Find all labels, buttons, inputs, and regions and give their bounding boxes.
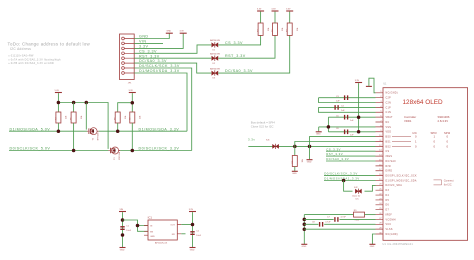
- wire D1/MOSI/SDA_3.3V from connector down to shifter: [134, 69, 187, 131]
- svg-text:D0/SCLK/SCK_5.0V: D0/SCLK/SCK_5.0V: [10, 147, 51, 151]
- svg-text:BAT54GW: BAT54GW: [210, 39, 220, 42]
- junction VLSS: [303, 227, 307, 231]
- junction IN-EN: [136, 224, 140, 228]
- supply 3.3V OLED rail: [355, 80, 362, 83]
- transistor T2: [109, 147, 122, 160]
- svg-text:GND: GND: [307, 162, 312, 164]
- svg-text:GND: GND: [150, 236, 155, 238]
- ground bottom rail: [301, 244, 307, 248]
- svg-text:GND: GND: [302, 246, 307, 248]
- solder jumper SJ1: [266, 140, 279, 149]
- wire BS0 row pin10: [310, 137, 376, 147]
- junction BS1 riser: [293, 145, 297, 149]
- wire VCOMH row pin27: [304, 218, 375, 220]
- svg-text:» 011110+SA0+RW: » 011110+SA0+RW: [8, 55, 34, 58]
- svg-text:CS: CS: [386, 151, 390, 153]
- svg-text:GND: GND: [167, 30, 172, 32]
- capacitor C2: [190, 231, 201, 237]
- supply 3.3V above R2: [271, 8, 278, 23]
- svg-text:Close for: Close for: [352, 194, 361, 197]
- ground below VSS row: [316, 127, 322, 136]
- wire VCC row pin28: [304, 223, 375, 225]
- capacitor C5: [336, 115, 354, 122]
- wire VDD row pin9: [328, 131, 375, 133]
- wire DC/SA0_3.3V stub to pin15: [326, 157, 376, 161]
- note text bus default: [251, 120, 275, 128]
- svg-text:10uF: 10uF: [196, 235, 201, 237]
- svg-text:5.0V: 5.0V: [55, 90, 60, 92]
- svg-text:VLSS: VLSS: [386, 229, 393, 231]
- svg-text:D7: D7: [386, 210, 390, 212]
- svg-text:VDD: VDD: [386, 132, 392, 134]
- wire CS_3.3V from connector: [134, 45, 211, 54]
- svg-text:for I2C: for I2C: [444, 182, 452, 186]
- svg-text:BS2: BS2: [386, 146, 392, 148]
- capacitor C4: [335, 105, 345, 112]
- svg-text:3.3V: 3.3V: [257, 8, 262, 10]
- svg-text:R/W: R/W: [386, 166, 392, 168]
- supply 3.3V right shifter: [129, 90, 136, 112]
- svg-text:BSS138: BSS138: [119, 151, 121, 159]
- junction VCOMH: [303, 218, 307, 222]
- diode D1: [210, 39, 220, 51]
- wire VSS row pin8: [319, 126, 376, 128]
- op OLED module U1 box: [383, 82, 468, 247]
- svg-text:VDD1: VDD1: [404, 119, 412, 123]
- resistor R1: [258, 23, 270, 35]
- junction OUT: [191, 223, 195, 227]
- supply symbol 3.3V top: [180, 30, 187, 33]
- svg-text:D2/I2C_SDA: D2/I2C_SDA: [386, 184, 403, 187]
- wire RST_3.3V to pullup R2: [218, 35, 275, 58]
- resistor R9 iref: [304, 210, 375, 221]
- wire CS_3.3V to pullup R1: [218, 35, 260, 45]
- svg-text:3.3v: 3.3v: [248, 137, 255, 141]
- svg-text:/RES: /RES: [386, 156, 393, 158]
- wire 3.3V net to supply: [134, 33, 183, 48]
- supply 3.3V regulator out: [189, 209, 196, 247]
- svg-text:RST_3.3V: RST_3.3V: [326, 152, 343, 156]
- wire pin1 NC(GND) hook: [369, 78, 376, 93]
- pin stubs U1: [376, 93, 384, 234]
- connector JP1: [120, 34, 135, 85]
- svg-text:VIN: VIN: [120, 209, 124, 211]
- junction BS0 riser: [308, 145, 312, 149]
- svg-text:3.3V: 3.3V: [355, 80, 360, 82]
- wire gate rail left: [58, 103, 108, 149]
- wire VIN net: [134, 40, 163, 44]
- svg-text:3.3V: 3.3V: [271, 8, 276, 10]
- junction SCL-R5: [72, 149, 76, 153]
- svg-text:DC/SA0: DC/SA0: [386, 160, 397, 163]
- svg-text:GND: GND: [292, 173, 297, 175]
- svg-text:D3: D3: [386, 190, 390, 192]
- capacitor C3: [336, 95, 348, 102]
- wire 3.3V rail down: [358, 83, 360, 132]
- svg-text:D1/MOSI/SDA_3.3V: D1/MOSI/SDA_3.3V: [139, 69, 180, 73]
- wire rail right shifter: [118, 103, 133, 112]
- svg-text:NC(GND): NC(GND): [386, 234, 398, 236]
- svg-text:GND: GND: [120, 250, 125, 252]
- svg-text:128x64 OLED: 128x64 OLED: [403, 99, 444, 106]
- wire VIN to IN/EN: [123, 220, 149, 231]
- svg-text:D1/SPI_MOSI/I2C_SDA: D1/SPI_MOSI/I2C_SDA: [386, 179, 417, 182]
- wire BS1 row pin11: [295, 142, 376, 147]
- svg-text:DC/SA0_3.3V: DC/SA0_3.3V: [225, 69, 253, 73]
- ground symbol top: [166, 30, 173, 33]
- svg-text:D0/SCLK/SCK_3.3V: D0/SCLK/SCK_3.3V: [139, 64, 180, 68]
- svg-text:VCOMH: VCOMH: [386, 219, 396, 221]
- svg-text:RST_3.3V: RST_3.3V: [225, 54, 246, 58]
- svg-text:CS_3.3V: CS_3.3V: [139, 49, 157, 53]
- svg-text:NR: NR: [172, 234, 176, 236]
- wire D0 stub to pin18: [324, 172, 376, 176]
- ground below C2: [190, 248, 196, 252]
- BS table dashes: [392, 137, 411, 147]
- wire RST_3.3V from connector: [134, 54, 211, 58]
- pin numbers U1: [379, 91, 382, 234]
- svg-text:» 0x7A with DC/SA0_3.3V floati: » 0x7A with DC/SA0_3.3V floating/high: [8, 58, 61, 61]
- svg-text:C2N: C2N: [386, 102, 392, 104]
- svg-text:BAT54GW: BAT54GW: [210, 53, 220, 56]
- resistor R2: [272, 23, 284, 35]
- junction VCC: [303, 223, 307, 227]
- junction VDD-3.3V: [357, 130, 361, 134]
- svg-text:BAT54GW: BAT54GW: [210, 67, 220, 70]
- svg-text:CS_3.3V: CS_3.3V: [225, 41, 243, 45]
- BS table values: [415, 135, 449, 149]
- supply 3.3V above R1: [257, 8, 264, 23]
- svg-text:GND: GND: [190, 250, 195, 252]
- resistor R8 pulldown: [292, 146, 304, 171]
- ground below C1: [120, 248, 126, 252]
- svg-text:OUT: OUT: [170, 225, 175, 227]
- svg-text:IC1: IC1: [148, 216, 153, 220]
- svg-text:3.3V: 3.3V: [180, 30, 185, 32]
- svg-text:DC/SA0_3.3V: DC/SA0_3.3V: [139, 59, 167, 63]
- capacitor C7: [327, 217, 347, 222]
- svg-text:D1/MOSI/SDA_3.3V: D1/MOSI/SDA_3.3V: [139, 127, 180, 131]
- svg-text:E/RD: E/RD: [386, 171, 393, 173]
- svg-text:D5: D5: [386, 200, 390, 202]
- svg-text:D0/SCLK/SCK_3.3V: D0/SCLK/SCK_3.3V: [139, 147, 180, 151]
- svg-text:3.3V: 3.3V: [286, 8, 291, 10]
- junction VSS tie: [327, 125, 331, 128]
- note bracket connect for I2C: [434, 178, 454, 186]
- svg-text:VIN: VIN: [139, 40, 147, 44]
- svg-text:3.3V: 3.3V: [129, 90, 134, 92]
- junction C1 bottom: [121, 233, 125, 237]
- junction VIN-IN: [121, 218, 125, 222]
- svg-text:GND: GND: [139, 35, 149, 39]
- wire DC/SA0_3.3V to pullup R3: [218, 35, 290, 73]
- svg-text:EN: EN: [150, 231, 153, 233]
- diode D3: [210, 67, 220, 79]
- svg-text:DC/SA0_3.3V: DC/SA0_3.3V: [326, 157, 349, 161]
- wire SJ2 link pin19-pin20: [344, 181, 376, 192]
- wire RST_3.3V stub to pin14: [326, 152, 376, 156]
- svg-text:3.3V: 3.3V: [139, 45, 148, 49]
- wire NR stub: [181, 233, 185, 235]
- capacitor C1: [120, 226, 131, 232]
- diode D2: [210, 53, 220, 65]
- svg-text:D0/SCLK/SCK_3.3V: D0/SCLK/SCK_3.3V: [324, 172, 358, 176]
- junction rail2: [131, 101, 135, 105]
- junction VBAT-3.3V: [357, 115, 361, 119]
- svg-text:C1N: C1N: [386, 112, 392, 114]
- junction SJ2 riser: [342, 179, 346, 183]
- svg-text:AP2112K-3.3: AP2112K-3.3: [155, 242, 168, 245]
- wire gnd rail bottom right: [303, 215, 305, 244]
- svg-text:CS_3.3V: CS_3.3V: [326, 147, 341, 151]
- svg-text:C1P: C1P: [386, 107, 392, 109]
- svg-text:Close SJ2 for I2C: Close SJ2 for I2C: [251, 125, 274, 129]
- resistor R5 shifter: [71, 112, 83, 151]
- wire DC/SA0_3.3V from connector: [134, 59, 211, 73]
- svg-text:I2C: I2C: [356, 199, 360, 201]
- svg-text:4.7uF: 4.7uF: [325, 221, 331, 223]
- svg-text:BS0: BS0: [386, 137, 392, 139]
- svg-text:VBAT: VBAT: [386, 116, 393, 119]
- svg-text:NC: NC: [386, 122, 390, 124]
- ground for pin1 hook: [366, 85, 372, 87]
- svg-text:U1 UG-2864HSWEG01: U1 UG-2864HSWEG01: [383, 243, 414, 246]
- wire SCL row: [9, 147, 192, 151]
- wire C2P row pin2: [319, 97, 376, 99]
- wire D1 stub to pin19: [324, 177, 376, 181]
- wire C1P row pin4: [319, 106, 376, 108]
- junction SDA-R4: [57, 129, 61, 133]
- svg-text:IREF: IREF: [386, 215, 393, 217]
- supply VIN regulator: [119, 209, 126, 247]
- svg-text:BS1: BS1: [386, 141, 392, 143]
- svg-text:VSS: VSS: [386, 127, 392, 129]
- note text ToDo block: [8, 41, 91, 65]
- wire C2N row pin3: [319, 98, 376, 103]
- svg-text:10uF: 10uF: [126, 230, 131, 232]
- solder jumper SJ2: [352, 187, 362, 201]
- svg-text:I2C Address: I2C Address: [10, 47, 31, 51]
- svg-text:RST_3.3V: RST_3.3V: [139, 54, 160, 58]
- svg-text:C2P: C2P: [386, 98, 392, 100]
- wire BS1 jumper net: [248, 137, 376, 146]
- svg-text:» 0x7B with DC/SA0_3.3V at GND: » 0x7B with DC/SA0_3.3V at GND: [8, 62, 54, 65]
- svg-text:GND: GND: [316, 134, 321, 136]
- wire VBAT row pin6: [328, 116, 375, 118]
- svg-text:2.8-3.3V: 2.8-3.3V: [438, 119, 449, 123]
- junction SDA-R6: [116, 129, 120, 133]
- svg-text:BSS138: BSS138: [98, 132, 100, 140]
- resistor R7 shifter: [129, 112, 141, 151]
- wire D0/SCLK/SCK_3.3V from connector down to shifter: [134, 64, 192, 150]
- supply 5.0V left shifter: [55, 90, 62, 112]
- wire SDA row: [9, 127, 187, 131]
- svg-text:4.7uF: 4.7uF: [341, 217, 347, 219]
- svg-text:3.3V: 3.3V: [189, 209, 194, 211]
- transistor T1: [87, 128, 100, 141]
- wire C1N row pin5: [319, 107, 376, 112]
- ground stub BS0: [307, 146, 313, 163]
- svg-text:GND: GND: [370, 246, 375, 248]
- svg-text:D4: D4: [386, 195, 390, 197]
- resistor R6 shifter: [115, 112, 127, 131]
- svg-text:VCC: VCC: [386, 224, 392, 226]
- svg-text:Connect: Connect: [444, 178, 454, 182]
- wire CS_3.3V stub to pin13: [326, 147, 376, 151]
- junction rail-R2b: [72, 101, 76, 112]
- resistor R3: [287, 23, 299, 35]
- junction rail-gate1: [85, 101, 89, 130]
- svg-text:ToDo: Change address to defaul: ToDo: Change address to default low: [8, 41, 91, 46]
- svg-text:U1: U1: [383, 82, 387, 86]
- capacitor C6: [336, 128, 354, 136]
- wire GND net from pin1: [134, 33, 169, 38]
- svg-text:D1/MOSI/SDA_5.0V: D1/MOSI/SDA_5.0V: [10, 127, 51, 131]
- junction SCL-R7: [131, 149, 135, 153]
- wire VLSS row pin29: [304, 228, 375, 230]
- supply 3.3V above R3: [286, 8, 293, 23]
- wire OUT to 3.3V: [181, 224, 192, 226]
- regulator IC1: [144, 216, 181, 245]
- wire VBAT to VSS/VDD tie: [327, 117, 329, 132]
- svg-text:NC(GND): NC(GND): [386, 93, 398, 95]
- resistor R4 shifter: [55, 112, 67, 131]
- capacitor C8: [312, 221, 331, 226]
- junction rail-R1b: [57, 101, 61, 105]
- pin names U1: [386, 93, 418, 236]
- ground pin30: [369, 244, 375, 248]
- svg-text:D6: D6: [386, 205, 390, 207]
- ground below R8: [292, 171, 298, 175]
- wire pin30 to ground: [372, 234, 375, 244]
- svg-text:D0/SPI_SCLK/I2C_SCK: D0/SPI_SCLK/I2C_SCK: [386, 176, 418, 178]
